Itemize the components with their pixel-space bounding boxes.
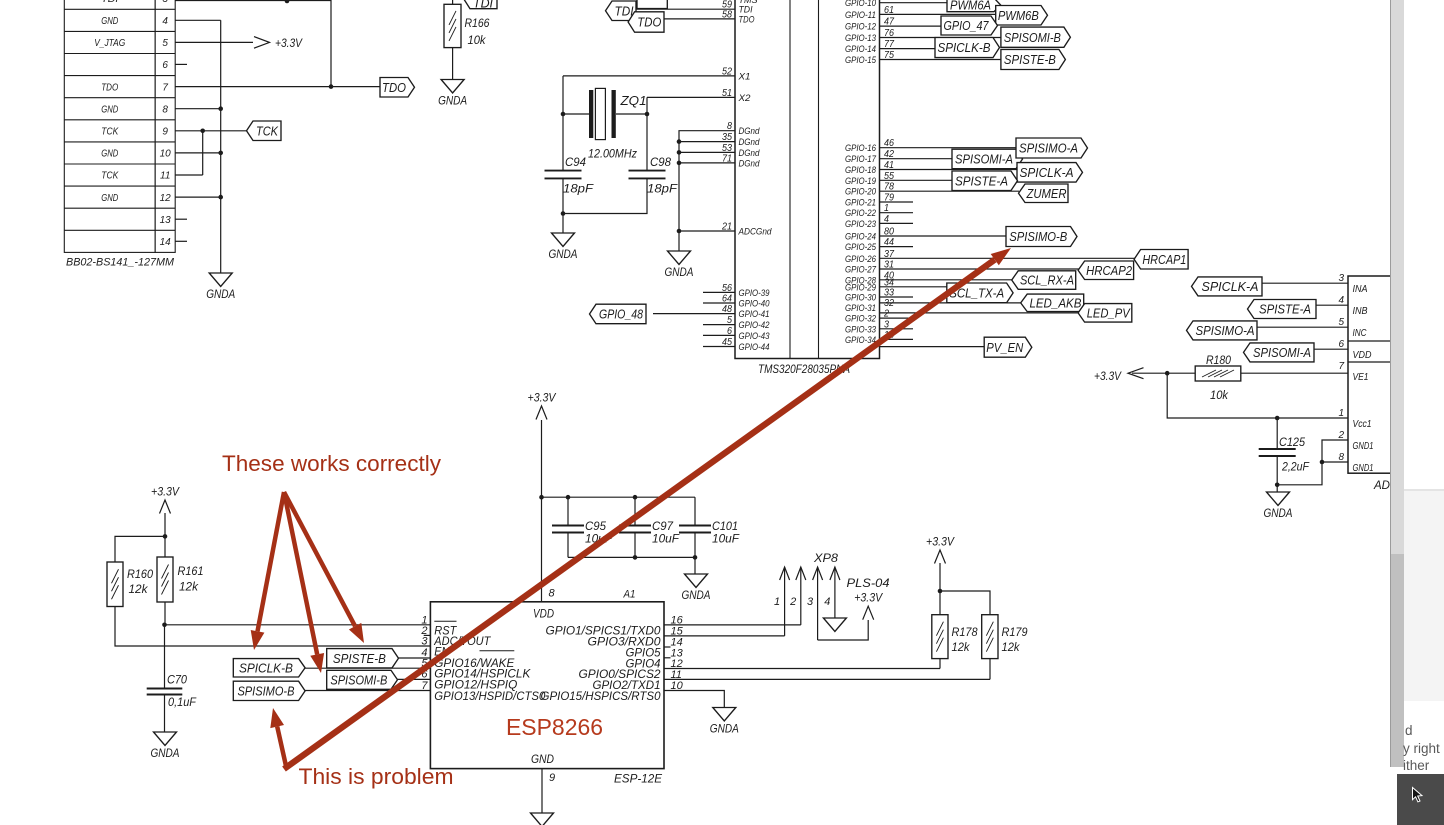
svg-text:GPIO-10: GPIO-10 [845, 0, 877, 9]
svg-text:ESP-12E: ESP-12E [614, 772, 663, 786]
svg-text:PLS-04: PLS-04 [847, 576, 890, 590]
svg-text:GPIO-25: GPIO-25 [845, 242, 877, 253]
svg-text:DGnd: DGnd [739, 148, 761, 159]
net flag fragment above TDI [637, 0, 667, 9]
power +3.3V ESP [536, 406, 547, 420]
svg-text:10: 10 [160, 149, 172, 160]
svg-text:DGnd: DGnd [739, 137, 761, 148]
svg-text:SPISIMO-B: SPISIMO-B [1009, 229, 1067, 244]
svg-text:SPISOMI-B: SPISOMI-B [330, 672, 387, 687]
wire TDI to pin 59 [636, 8, 735, 10]
svg-text:BB02-BS141_-127MM: BB02-BS141_-127MM [66, 257, 175, 269]
capacitor C95 [552, 525, 584, 527]
wire cap top rail [542, 496, 696, 498]
wire GND1 pin8 [1322, 461, 1348, 463]
resistor R178 [932, 615, 948, 659]
svg-text:12k: 12k [1002, 640, 1021, 654]
wire C125 top [1276, 418, 1278, 449]
stub GPIO-29 to SCL_TX-A [880, 286, 947, 288]
ground GNDA crystal [552, 233, 575, 247]
svg-text:TCK: TCK [101, 171, 119, 182]
svg-text:GPIO-44: GPIO-44 [739, 342, 770, 353]
svg-text:GPIO-39: GPIO-39 [739, 288, 771, 299]
header pin 2 arrow [796, 567, 806, 580]
svg-text:HRCAP2: HRCAP2 [1086, 263, 1133, 278]
svg-text:GND1: GND1 [1353, 463, 1374, 474]
net flag SPISOMI-B [327, 670, 398, 689]
wire R166 top [452, 0, 454, 4]
svg-text:45: 45 [722, 337, 732, 348]
svg-text:X1: X1 [737, 71, 750, 82]
wire GPIO-11 to PWM6B [880, 13, 996, 15]
net flag SPISTE-B [327, 649, 399, 668]
net flag TDI partial top right [464, 0, 498, 9]
svg-text:+3.3V: +3.3V [854, 591, 883, 605]
header pin 4 arrow [830, 567, 840, 580]
header pin 3 arrow [813, 567, 823, 580]
svg-text:GNDA: GNDA [1264, 506, 1293, 520]
wire R160 to EN pin3 [115, 607, 430, 647]
wire C98 bottom to C94 [563, 178, 647, 213]
svg-text:GNDA: GNDA [549, 247, 578, 261]
wire SPISIMO-A to INC [1257, 326, 1348, 328]
svg-text:18pF: 18pF [563, 182, 594, 196]
wire VE1 to R180 [1241, 372, 1348, 374]
wire to GNDA right [1276, 485, 1278, 492]
resistor R179 [982, 615, 998, 659]
junction TCK [200, 129, 205, 134]
svg-text:GND1: GND1 [1353, 441, 1374, 452]
svg-text:5: 5 [727, 315, 732, 326]
wire GND1 pin2 [1277, 440, 1348, 485]
wire vertical pin9-pin11 [202, 131, 204, 175]
svg-text:GND: GND [101, 16, 118, 27]
svg-text:8: 8 [549, 588, 556, 600]
svg-text:TCK: TCK [101, 126, 119, 137]
wire C125 bottom [1276, 456, 1278, 485]
wire pin 35 DGnd [679, 141, 735, 143]
module A1 ESP8266 body [430, 602, 664, 769]
svg-text:ESP8266: ESP8266 [506, 714, 603, 740]
net flag LED_PV [1078, 304, 1132, 323]
svg-text:INB: INB [1353, 306, 1368, 317]
net flag SPISIMO-A [1016, 138, 1088, 158]
svg-text:HRCAP1: HRCAP1 [1142, 252, 1186, 267]
wire pin 48 GPIO-41 [653, 313, 735, 315]
svg-text:GPIO-43: GPIO-43 [739, 331, 771, 342]
junction VDD rail [539, 495, 544, 500]
svg-text:ADCGnd: ADCGnd [738, 227, 772, 238]
wire GPIO-13 to SPISOMI-B [880, 37, 1001, 39]
wire to R160 [115, 536, 165, 562]
svg-text:V_JTAG: V_JTAG [94, 38, 125, 49]
stub GPIO-34 [880, 338, 914, 340]
annotation arrow to SPICLK-B [258, 492, 285, 631]
connector XS1 BB02-BS141 table [64, 0, 155, 252]
wire pin 64 GPIO-40 [703, 302, 735, 304]
wire pin11 to R179 [664, 678, 990, 680]
svg-text:9: 9 [162, 126, 168, 137]
svg-text:R179: R179 [1002, 625, 1028, 639]
wire pin11 TCK [175, 174, 203, 176]
svg-text:4: 4 [1338, 295, 1344, 306]
junction C94 C98 gnd [561, 211, 566, 216]
svg-text:6: 6 [1338, 339, 1344, 350]
capacitor C101 [679, 525, 711, 527]
stub pin2 ADC [424, 634, 431, 636]
svg-text:R180: R180 [1206, 353, 1231, 367]
wire GPIO-14 to SPICLK-B [880, 48, 936, 50]
power +3.3V arrow at pin5 [254, 37, 270, 49]
svg-text:GPIO-33: GPIO-33 [845, 324, 877, 335]
net flag TCK [247, 121, 282, 141]
wire C97 bottom [634, 533, 636, 558]
wire +3.3V down [164, 513, 166, 536]
ground GNDA right [1267, 492, 1290, 506]
junction crystal right [645, 112, 650, 117]
svg-text:X2: X2 [737, 93, 751, 104]
wire GPIO-27 to HRCAP2 [880, 268, 1079, 270]
ground GNDA table [209, 273, 232, 287]
svg-text:GPIO13/HSPID/CTS0: GPIO13/HSPID/CTS0 [434, 689, 545, 703]
stub GPIO-30 [880, 296, 914, 298]
svg-text:SPICLK-B: SPICLK-B [239, 660, 293, 675]
svg-text:SPISIMO-B: SPISIMO-B [237, 683, 294, 698]
svg-text:DGnd: DGnd [739, 158, 761, 169]
svg-text:TCK: TCK [256, 123, 279, 138]
svg-text:A1: A1 [623, 589, 636, 601]
wire R180 to +3.3V [1132, 372, 1195, 374]
wire X1 [563, 75, 735, 77]
net flag SPISOMI-A [1244, 343, 1315, 362]
wire GPIO-20 to ZUMER [880, 190, 1020, 192]
wire GPIO-17 to SPISOMI-A [880, 158, 953, 160]
svg-text:C70: C70 [167, 673, 187, 687]
wire to GNDA caps [694, 557, 696, 574]
svg-text:6: 6 [727, 326, 732, 337]
dark tooltip box bottom right [1397, 774, 1444, 825]
ground GNDA pin10 [713, 708, 736, 722]
svg-text:+3.3V: +3.3V [1094, 369, 1122, 383]
power +3.3V R178 [935, 550, 946, 564]
stub pin6 [175, 63, 187, 65]
wire pin8 GND [175, 108, 221, 110]
wire pin 71 DGnd [679, 162, 735, 164]
svg-text:This is problem: This is problem [299, 764, 454, 789]
svg-text:2: 2 [1337, 430, 1344, 441]
svg-text:GPIO-16: GPIO-16 [845, 143, 877, 154]
wire pin5 V_JTAG [175, 41, 253, 43]
wire R166 to GNDA [452, 48, 454, 80]
svg-text:SPISIMO-A: SPISIMO-A [1196, 323, 1255, 338]
svg-text:SPISTE-B: SPISTE-B [1004, 52, 1056, 67]
net flag SPISTE-A [1248, 300, 1317, 319]
stub GPIO-23 [880, 222, 914, 224]
wire Vcc1 [1167, 373, 1348, 418]
stub GPIO-22 [880, 212, 914, 214]
svg-text:GPIO-14: GPIO-14 [845, 44, 876, 55]
junction R180 Vcc1 [1165, 371, 1170, 376]
svg-text:Vcc1: Vcc1 [1353, 419, 1372, 430]
wire X1 vertical to C94 [562, 76, 564, 170]
svg-text:GNDA: GNDA [665, 265, 694, 279]
svg-text:SPICLK-A: SPICLK-A [1202, 279, 1259, 294]
wire to crystal left [563, 113, 589, 115]
net flag SPISTE-A [952, 171, 1018, 191]
net flag SCL_RX-A [1012, 271, 1076, 290]
svg-text:4: 4 [824, 596, 830, 608]
wire pin3 row [175, 0, 331, 2]
junction GND1 [1320, 460, 1325, 465]
wire pin9 TCK [175, 130, 247, 132]
capacitor C125 [1259, 448, 1296, 450]
svg-text:GPIO-42: GPIO-42 [739, 320, 771, 331]
wire pin4 GND to bus [175, 19, 221, 21]
junction C125 gnd [1275, 483, 1280, 488]
stub GPIO-21 [880, 201, 914, 203]
svg-text:GPIO-30: GPIO-30 [845, 293, 877, 304]
wire vertical to TDO net [330, 0, 332, 87]
wire C101 top [694, 497, 696, 525]
resistor R160 [107, 562, 123, 607]
wire pin15 to XP8-1 [664, 635, 785, 637]
wire SPICLK-A to INA [1262, 282, 1348, 284]
svg-text:SPISTE-A: SPISTE-A [1259, 302, 1311, 317]
svg-text:GPIO-17: GPIO-17 [845, 154, 877, 165]
svg-text:7: 7 [1338, 361, 1344, 372]
svg-text:SPISOMI-A: SPISOMI-A [955, 152, 1013, 167]
net flag SPISOMI-B [1001, 27, 1071, 47]
svg-text:4: 4 [162, 16, 168, 27]
svg-text:GND: GND [101, 193, 118, 204]
svg-text:SPISOMI-A: SPISOMI-A [1253, 345, 1311, 360]
net flag TDO [380, 78, 415, 98]
svg-text:SPISTE-B: SPISTE-B [333, 651, 386, 666]
wire GPIO-24 to SPISIMO-B [880, 235, 1007, 237]
net flag SPICLK-B [935, 38, 1000, 58]
wire pin7 TDO [175, 86, 380, 88]
svg-text:XP8: XP8 [813, 551, 838, 565]
section line right IC [1348, 340, 1403, 342]
wire TDO to pin 58 [664, 18, 735, 20]
overline RST [434, 620, 456, 622]
svg-text:ZUMER: ZUMER [1026, 186, 1067, 201]
net flag SPISIMO-B [233, 681, 305, 700]
svg-text:12k: 12k [179, 580, 199, 594]
svg-text:GNDA: GNDA [710, 722, 739, 736]
svg-text:GPIO-11: GPIO-11 [845, 10, 876, 21]
net flag LED_AKB [1021, 294, 1084, 312]
svg-text:GNDA: GNDA [151, 746, 180, 760]
wire GPIO-19 to SPISTE-A [880, 179, 953, 181]
wire pin10 to GNDA [664, 691, 724, 708]
svg-text:R178: R178 [952, 625, 978, 639]
power +3.3V left [160, 500, 171, 514]
stub pin14 [664, 646, 671, 648]
wire R161 bottom [164, 602, 166, 625]
wire XP8-3 to +3.3V [818, 620, 869, 640]
capacitor C98 [629, 170, 666, 172]
svg-text:VE1: VE1 [1353, 372, 1369, 383]
svg-text:GPIO15/HSPICS/RTS0: GPIO15/HSPICS/RTS0 [541, 689, 661, 703]
net flag SPISIMO-A [1187, 321, 1258, 340]
wire GND bus vertical [220, 20, 222, 273]
svg-text:35: 35 [722, 132, 732, 143]
svg-text:10uF: 10uF [652, 532, 680, 546]
svg-text:LED_PV: LED_PV [1087, 305, 1131, 320]
svg-text:GND: GND [101, 104, 118, 115]
svg-text:56: 56 [722, 283, 732, 294]
wire C95 top [567, 497, 569, 525]
wire C70 to GNDA [164, 695, 166, 733]
svg-text:GPIO-24: GPIO-24 [845, 232, 876, 243]
svg-text:C125: C125 [1279, 435, 1305, 449]
svg-text:PV_EN: PV_EN [986, 340, 1024, 355]
svg-text:GNDA: GNDA [438, 94, 467, 108]
wire GPIO-18 to SPICLK-A [880, 169, 1018, 171]
wire C95 bottom [567, 533, 569, 558]
svg-text:AD: AD [1373, 478, 1390, 492]
svg-text:2,2uF: 2,2uF [1281, 460, 1309, 474]
stub GPIO-32 [880, 317, 914, 319]
capacitor C94 [545, 170, 582, 172]
svg-text:TDO: TDO [101, 82, 118, 93]
scrollbar thumb [1391, 554, 1404, 767]
wire SPISTE-A to INB [1316, 304, 1348, 306]
svg-text:8: 8 [1338, 452, 1344, 463]
net flag SPISTE-B [1001, 49, 1066, 69]
wire pin 6 GPIO-43 [703, 334, 735, 336]
wire pin 5 GPIO-42 [703, 324, 735, 326]
net flag TDI [606, 1, 637, 21]
svg-text:These works correctly: These works correctly [222, 451, 441, 476]
junction ADCGnd [677, 229, 682, 234]
crystal ZQ1 [589, 90, 593, 138]
header pin 1 arrow [780, 567, 790, 580]
stub GPIO-25 [880, 246, 914, 248]
wire to R179 [940, 591, 990, 615]
svg-text:12: 12 [160, 193, 172, 204]
wire +3.3V to R178 [939, 563, 941, 615]
resistor R161 [157, 557, 173, 602]
svg-text:GPIO-15: GPIO-15 [845, 55, 877, 66]
wire pin12 GND [175, 196, 221, 198]
svg-text:64: 64 [722, 294, 732, 305]
ground GNDA XP8 pin4 [823, 618, 846, 632]
wire pin16 to XP8-2 [664, 624, 801, 626]
svg-text:GNDA: GNDA [682, 588, 711, 602]
svg-text:GPIO-12: GPIO-12 [845, 22, 877, 33]
svg-text:3: 3 [162, 0, 168, 5]
svg-text:TDO: TDO [739, 14, 755, 25]
stub pin13 [175, 218, 187, 220]
wire to C70 [164, 625, 166, 689]
browser page right margin [1390, 0, 1444, 825]
wire pin12 to R178 [664, 668, 940, 670]
wire pin10 GND [175, 152, 221, 154]
svg-text:12.00MHz: 12.00MHz [588, 147, 637, 161]
svg-text:5: 5 [162, 38, 168, 49]
net flag TDO at IC [628, 12, 664, 32]
net flag HRCAP1 [1134, 250, 1188, 270]
svg-text:TDI: TDI [615, 3, 634, 18]
wire SPISOMI-A to VDD [1314, 348, 1348, 350]
wire C101 bottom [694, 533, 696, 558]
svg-text:6: 6 [162, 60, 168, 71]
junction R160 R161 [163, 534, 168, 539]
resistor R180 [1195, 366, 1241, 381]
resistor R166 [444, 4, 461, 47]
svg-text:R160: R160 [127, 567, 153, 581]
ground GNDA DGnd [668, 251, 691, 265]
svg-text:12k: 12k [952, 640, 971, 654]
svg-text:PWM6B: PWM6B [998, 8, 1039, 23]
net flag GPIO_48 [590, 304, 647, 324]
wire SPISOMI-B to pin6 [398, 678, 431, 680]
net flag SCL_TX-A [947, 283, 1013, 303]
svg-text:SCL_RX-A: SCL_RX-A [1020, 273, 1074, 288]
capacitor C97 [619, 525, 651, 527]
net flag SPICLK-A [1017, 163, 1083, 183]
svg-text:INC: INC [1353, 328, 1368, 339]
annotation long arrow to TMS SPISIMO-B [284, 260, 995, 769]
wire ADCGnd [679, 230, 735, 232]
svg-text:SPISIMO-A: SPISIMO-A [1019, 141, 1078, 156]
svg-text:TDI: TDI [473, 0, 493, 11]
svg-text:+3.3V: +3.3V [151, 485, 180, 499]
svg-text:0,1uF: 0,1uF [168, 695, 197, 709]
wire GPIO-10 to PWM6A [880, 2, 948, 4]
wire X2 [647, 96, 735, 98]
net flag PWM6A [947, 0, 1001, 12]
net flag SPISIMO-B [1006, 227, 1077, 247]
wire GPIO-26 to HRCAP1 [880, 257, 1135, 259]
svg-text:11: 11 [160, 171, 170, 182]
svg-text:GPIO-40: GPIO-40 [739, 299, 771, 310]
svg-text:2: 2 [789, 596, 796, 608]
net flag HRCAP2 [1078, 261, 1134, 280]
net flag GPIO_47 [941, 16, 998, 35]
svg-text:TDO: TDO [637, 15, 661, 30]
wire SPISTE-B to pin4 [399, 657, 431, 659]
wire GPIO-28 to SCL_RX-A [880, 279, 1013, 281]
svg-text:GPIO_48: GPIO_48 [599, 307, 644, 322]
junction crystal left [561, 112, 566, 117]
svg-text:d: d [1405, 723, 1413, 738]
svg-text:GPIO-13: GPIO-13 [845, 33, 877, 44]
svg-text:GPIO-22: GPIO-22 [845, 208, 877, 219]
wire SPISIMO-B to pin7 [305, 690, 430, 692]
net flag PWM6B [996, 6, 1048, 26]
wire R179 bottom [989, 659, 991, 680]
wire GPIO-16 to SPISIMO-A [880, 147, 1017, 149]
stub GPIO-33 [880, 328, 914, 330]
mouse cursor icon [1413, 788, 1423, 802]
svg-text:R161: R161 [178, 564, 204, 578]
ground GNDA ESP bottom [531, 813, 554, 825]
svg-text:13: 13 [160, 215, 172, 226]
junction C125 [1275, 416, 1280, 421]
ground GNDA R166 [441, 80, 464, 94]
svg-text:GPIO-21: GPIO-21 [845, 198, 876, 209]
wire pin 56 GPIO-39 [703, 291, 735, 293]
svg-text:12k: 12k [129, 582, 149, 596]
svg-text:DGnd: DGnd [739, 126, 761, 137]
svg-text:C98: C98 [650, 155, 671, 169]
svg-text:7: 7 [162, 82, 168, 93]
svg-text:9: 9 [549, 772, 555, 784]
wire pin 53 DGnd [679, 151, 735, 153]
